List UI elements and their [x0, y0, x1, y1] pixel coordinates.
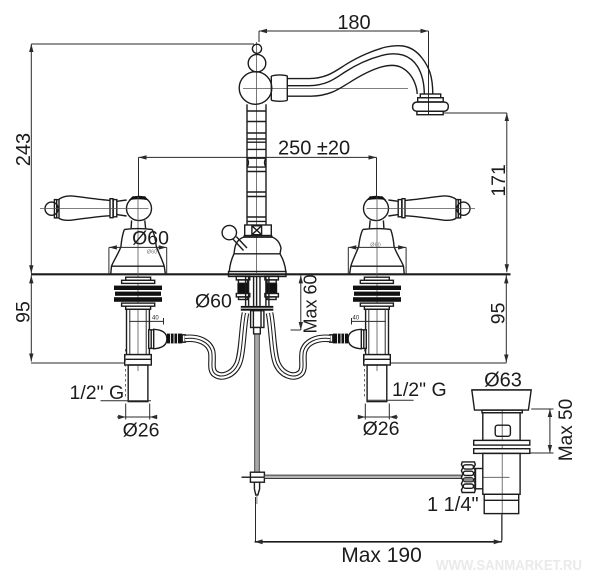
hose manifold bar (dark)	[241, 306, 273, 311]
diverter box with cross symbol	[245, 225, 272, 236]
svg-text:171: 171	[488, 164, 510, 197]
spout horizontal centreline	[243, 88, 408, 90]
centre fitting block	[251, 311, 264, 334]
label Ø60 left	[132, 228, 169, 250]
rod clamp block	[242, 472, 265, 482]
left handle assembly	[40, 196, 185, 420]
svg-text:1/2" G: 1/2" G	[392, 379, 447, 401]
centre stud right washer	[265, 277, 279, 280]
pivot serrated knob	[461, 462, 482, 493]
dimension 95 left	[13, 275, 129, 363]
spout finial small ball	[252, 44, 261, 53]
pop-up lift rod knob	[222, 225, 247, 250]
label Ø26 left	[123, 420, 160, 442]
svg-text:95: 95	[13, 301, 35, 323]
dimension 95 right	[388, 275, 510, 363]
drain centreline	[501, 396, 503, 540]
spout connector collar	[271, 75, 287, 101]
spout tube (swan neck)	[287, 46, 433, 97]
spout column centreline	[256, 42, 258, 273]
label Ø63	[484, 370, 522, 392]
dimension 171 (right vertical)	[444, 113, 510, 272]
centre tubes below plate	[246, 277, 269, 306]
drain top flange	[472, 390, 531, 410]
label 1/2" G right with leader	[367, 379, 447, 401]
label Ø60 centre	[195, 291, 232, 313]
right handle assembly (mirrored)	[330, 196, 475, 420]
svg-text:Ø60: Ø60	[195, 291, 232, 313]
svg-text:Ø26: Ø26	[123, 420, 160, 442]
deck / mounting surface line	[31, 273, 511, 275]
svg-text:180: 180	[337, 12, 370, 34]
svg-text:WWW.SANMARKET.RU: WWW.SANMARKET.RU	[436, 557, 582, 574]
centre stud left washer	[236, 277, 250, 280]
svg-text:243: 243	[13, 133, 35, 166]
svg-text:1 1/4": 1 1/4"	[427, 494, 479, 516]
centre stud right threaded (dark)	[266, 280, 277, 294]
centre stud left nut	[236, 294, 250, 300]
left hose	[185, 313, 246, 376]
svg-text:Ø60: Ø60	[132, 228, 169, 250]
svg-text:Max 190: Max 190	[341, 544, 422, 567]
svg-text:Ø26: Ø26	[363, 418, 400, 440]
centre base plate	[229, 272, 287, 277]
tiny bell marking left	[147, 250, 157, 256]
dimension 243 (left vertical)	[13, 44, 254, 273]
dimension Max 60	[291, 274, 321, 333]
label Ø26 right	[363, 418, 400, 440]
drain body slot	[495, 425, 510, 436]
svg-text:95: 95	[488, 302, 510, 324]
svg-text:Max 50: Max 50	[556, 399, 577, 461]
centre bell base	[229, 236, 285, 272]
spout column body	[247, 104, 266, 225]
svg-text:40: 40	[152, 316, 159, 322]
label 1/2" G left with leader	[70, 382, 152, 404]
dimension 180 (top)	[259, 12, 429, 114]
drain locknut plate 1	[474, 440, 530, 445]
centre stud right nut	[265, 294, 279, 300]
label 1 1/4"	[427, 494, 479, 516]
40 label left	[152, 316, 159, 322]
svg-text:Ø60: Ø60	[147, 250, 157, 256]
40 label right	[353, 316, 360, 322]
spout finial mid ball	[248, 54, 266, 72]
svg-text:Ø60: Ø60	[370, 243, 380, 249]
dimension Max 190	[255, 497, 502, 567]
tiny bell marking right	[370, 243, 380, 249]
dimension 250 ±20	[139, 138, 377, 197]
watermark	[436, 557, 582, 574]
dashed extension left tube	[124, 349, 126, 399]
svg-text:Max 60: Max 60	[301, 274, 321, 333]
svg-text:Ø63: Ø63	[484, 370, 522, 392]
centre stud left threaded (dark)	[237, 280, 248, 294]
spout body sphere	[239, 72, 272, 105]
right hose	[270, 313, 331, 376]
dashed extension right tube	[364, 349, 366, 399]
drain tailpiece	[484, 494, 519, 513]
drain body upper	[483, 413, 520, 441]
pop-up rod (grey)	[255, 334, 260, 472]
drain flange step	[482, 410, 522, 413]
drain locknut plate 2	[474, 449, 530, 454]
horizontal pop-up linkage rod	[264, 475, 463, 478]
svg-text:40: 40	[353, 316, 360, 322]
spout outlet mouth rings	[413, 94, 449, 115]
clamp tail pin	[254, 482, 259, 504]
svg-text:250 ±20: 250 ±20	[278, 138, 350, 160]
dimension Max 50	[530, 399, 577, 461]
drain body lower	[483, 453, 520, 494]
